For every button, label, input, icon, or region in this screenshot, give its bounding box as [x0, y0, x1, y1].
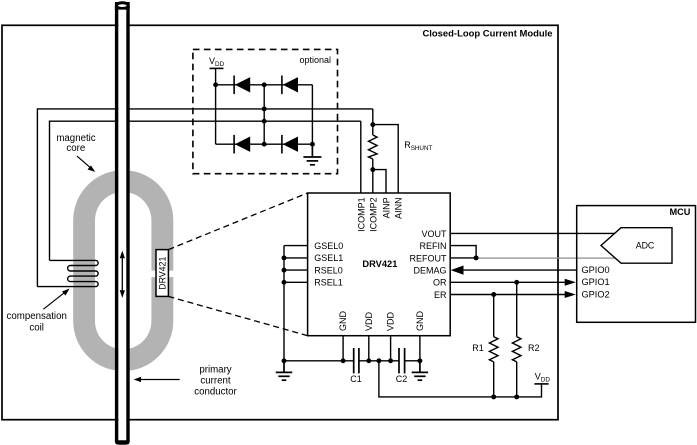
wire: bottom bus segment 3 [405, 360, 420, 362]
primary current conductor [115, 1, 130, 445]
resistor R1 [489, 337, 498, 362]
wire: compensation wire inner vertical to lower line [50, 121, 119, 260]
wire: DEMAG from GPIO0 [459, 269, 577, 271]
svg-text:ER: ER [434, 290, 447, 300]
magnetic core (gray stadium ring) [73, 170, 174, 371]
svg-text:coil: coil [29, 323, 44, 334]
wire: VDD2 pin drop [390, 336, 392, 361]
wire: VDD feed from bus to VDD symbol [379, 361, 542, 397]
node: shunt top [370, 122, 375, 127]
wire: bottom bus segment 1 [284, 360, 354, 362]
svg-text:GPIO0: GPIO0 [582, 265, 610, 275]
svg-text:Closed-Loop Current Module: Closed-Loop Current Module [422, 29, 552, 40]
node: R1 bottom [491, 394, 496, 399]
svg-text:ICOMP2: ICOMP2 [368, 197, 378, 232]
wire: GSEL0 stub [284, 245, 308, 247]
svg-text:compensation: compensation [7, 311, 67, 322]
svg-text:GPIO1: GPIO1 [582, 277, 610, 287]
node: R1 tap on ER line [491, 292, 496, 297]
wire: GSEL/RSEL left bus [283, 246, 285, 361]
svg-text:GSEL0: GSEL0 [314, 241, 343, 251]
svg-text:AINP: AINP [381, 197, 391, 218]
svg-text:GPIO2: GPIO2 [582, 289, 610, 299]
wire: GSEL1 stub [284, 257, 308, 259]
arrowhead into GPIO1 [565, 279, 576, 286]
svg-text:VDD: VDD [364, 311, 374, 331]
wire: AINP branch [373, 170, 386, 193]
module box: Closed-Loop Current Module [2, 25, 558, 419]
optional dashed box [193, 49, 338, 173]
resistor RSHUNT [369, 135, 378, 159]
wire: right vertical of diode bridge [311, 85, 313, 144]
wire: GND1 pin drop [342, 336, 344, 361]
svg-text:MCU: MCU [669, 207, 690, 217]
arrowhead into GPIO2 [565, 291, 576, 298]
svg-text:DEMAG: DEMAG [413, 266, 446, 276]
node: REFIN/REFOUT junction [474, 255, 479, 260]
node: R2 bottom [514, 394, 519, 399]
svg-text:GND: GND [415, 311, 425, 332]
ground (left of bottom bus) [276, 361, 292, 380]
arrowhead into DEMAG [451, 266, 464, 275]
core air gap [151, 271, 175, 278]
svg-text:RSEL0: RSEL0 [314, 265, 343, 275]
svg-text:RSEL1: RSEL1 [314, 278, 343, 288]
svg-text:VDD: VDD [209, 56, 225, 68]
diode D4 bottom-right [282, 135, 298, 154]
wire: RSEL1 stub [284, 281, 308, 283]
node: diode bridge junction dots [213, 82, 315, 146]
arrow to coil [43, 289, 69, 310]
dashed zoom line bottom [168, 296, 307, 335]
op-amp U1: DRV421 chip body [308, 193, 451, 336]
wire: R1 bottom lead [493, 362, 495, 397]
wire: R2 bottom lead [516, 362, 518, 397]
current direction double arrow [120, 251, 125, 298]
svg-text:RSHUNT: RSHUNT [404, 140, 432, 152]
wire: ER to GPIO2 [450, 294, 568, 296]
svg-text:VDD: VDD [535, 372, 551, 384]
sensor DRV421 box in core gap [156, 250, 168, 297]
svg-text:REFIN: REFIN [420, 241, 447, 251]
svg-text:VOUT: VOUT [421, 229, 447, 239]
capacitor C2 [399, 348, 405, 373]
resistor R2 [512, 337, 521, 362]
svg-text:C1: C1 [350, 374, 362, 384]
dashed zoom line top [168, 193, 307, 250]
svg-text:GND: GND [338, 311, 348, 332]
wire: REFIN jumper [450, 246, 476, 258]
svg-text:ADC: ADC [636, 240, 655, 250]
wire: RSEL0 stub [284, 269, 308, 271]
wire: ICOMP1 pin stub [360, 121, 362, 193]
MCU box [577, 206, 696, 323]
wire: ICOMP2 shunt branch vertical [372, 109, 374, 135]
svg-text:current: current [200, 376, 230, 387]
ground (optional box) [303, 144, 321, 165]
svg-text:AINN: AINN [394, 197, 404, 219]
diode D3 bottom-left [234, 135, 250, 154]
wire: VDD1 pin drop [368, 336, 370, 361]
svg-text:GSEL1: GSEL1 [314, 253, 343, 263]
svg-text:R2: R2 [528, 343, 540, 353]
wire: middle vertical of diode bridge [263, 85, 265, 144]
svg-text:ICOMP1: ICOMP1 [357, 197, 367, 232]
svg-text:DRV421: DRV421 [362, 259, 397, 269]
svg-text:DRV421: DRV421 [157, 257, 167, 290]
wire: bottom bus segment 2 [359, 360, 399, 362]
VDD supply (bottom right) [534, 383, 548, 385]
node: left bus dots [282, 255, 287, 284]
node: bottom bus dots [282, 358, 423, 363]
wire: shunt bottom to ICOMP2 pin [372, 159, 374, 193]
wire: bottom diode row [216, 143, 313, 145]
diode D2 top-right [282, 76, 298, 95]
svg-text:conductor: conductor [194, 387, 237, 398]
svg-text:primary: primary [199, 364, 231, 375]
svg-text:optional: optional [299, 55, 331, 65]
node: R2 tap on OR line [514, 280, 519, 285]
svg-text:R1: R1 [472, 343, 484, 353]
svg-text:C2: C2 [396, 374, 408, 384]
compensation coil winding [37, 260, 98, 286]
capacitor C1 [354, 348, 359, 373]
wire: AINN branch [373, 125, 398, 193]
wire: GND2 pin drop [419, 336, 421, 361]
wire: R1 top lead [493, 295, 495, 337]
arrow to conductor [134, 377, 180, 382]
wire: VOUT to ADC [450, 232, 616, 234]
wire: REFOUT [450, 257, 476, 259]
wire: lower horizontal right of conductor to ICOMP1 [127, 120, 361, 122]
svg-text:REFOUT: REFOUT [410, 253, 448, 263]
svg-text:OR: OR [433, 278, 447, 288]
wire: OR to GPIO1 [450, 281, 568, 283]
ADC block [601, 228, 672, 264]
ground (right of bottom bus) [412, 361, 428, 380]
svg-text:VDD: VDD [386, 311, 396, 331]
wire: compensation wire outer vertical+horizontal to upper line [37, 109, 118, 287]
svg-text:core: core [66, 143, 85, 154]
wire: top diode row [216, 84, 313, 86]
wire: VDD stub / left vertical of diode bridge [215, 68, 217, 144]
diode D1 top-left [234, 76, 250, 95]
wire: R2 top lead [516, 282, 518, 336]
wire: REFOUT grey extension to ADC [476, 257, 616, 259]
arrow to core [77, 156, 95, 172]
wire: upper horizontal right of conductor to shunt [127, 108, 373, 110]
node: shunt bottom [370, 167, 375, 172]
